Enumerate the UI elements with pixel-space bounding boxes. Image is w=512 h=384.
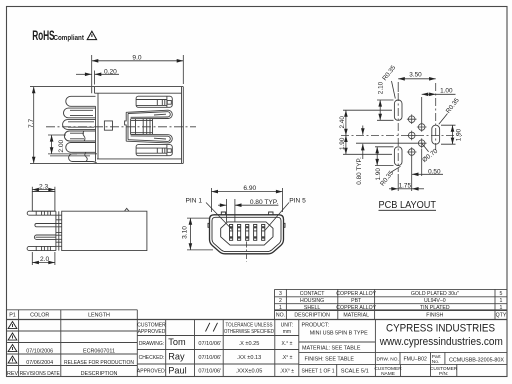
svg-text:Part: Part (432, 354, 441, 360)
svg-text:MATERIAL: MATERIAL (343, 313, 369, 319)
side view lower bar (34, 235, 56, 239)
pcb slot hole right (432, 125, 440, 144)
side view insulator box (32, 192, 55, 212)
company title block (right) (375, 352, 507, 376)
top view left contact fingers (63, 93, 98, 163)
drawing number row texts (377, 354, 505, 365)
svg-text:MINI USB 5PIN B TYPE: MINI USB 5PIN B TYPE (310, 331, 368, 337)
svg-text:CUSTOMER: CUSTOMER (137, 323, 166, 329)
svg-text:6.90: 6.90 (243, 185, 256, 192)
svg-text:CUSTOMER: CUSTOMER (374, 366, 402, 372)
svg-text:PIN 1: PIN 1 (186, 198, 203, 205)
side view top pin strip (27, 211, 56, 215)
svg-text:0.80 TYP.: 0.80 TYP. (356, 157, 363, 185)
side view body (62, 208, 147, 250)
svg-text:P1: P1 (9, 313, 16, 319)
svg-text:Ray: Ray (168, 352, 185, 362)
svg-text:APPROVED: APPROVED (138, 329, 166, 335)
svg-text:UNIT:: UNIT: (281, 323, 294, 329)
svg-text:QTY: QTY (496, 313, 507, 319)
svg-text:RELEASE FOR PRODUCTION: RELEASE FOR PRODUCTION (64, 360, 134, 366)
dimension 9.0 (92, 55, 184, 86)
revision triangle row1 (8, 322, 17, 364)
svg-text:CHECKED:: CHECKED: (139, 355, 165, 361)
dimension 1.00 (422, 94, 456, 122)
top view shell outline (30, 87, 183, 164)
dimension 2.0 (side view) (32, 252, 55, 265)
svg-text:TIN PLATED: TIN PLATED (420, 305, 450, 311)
dimension 2.40 (343, 110, 392, 135)
dimension 3.50 (398, 79, 436, 92)
svg-text:No.: No. (432, 359, 439, 365)
svg-text:DRW. NO.: DRW. NO. (377, 356, 399, 362)
svg-text:COLOR: COLOR (30, 313, 49, 319)
svg-text:www.cypressindustries.com: www.cypressindustries.com (379, 336, 503, 348)
svg-text:Tom: Tom (168, 337, 186, 347)
svg-text:2.3: 2.3 (39, 183, 48, 190)
leader R0.35 lower (391, 166, 401, 172)
svg-text:07/10/06': 07/10/06' (198, 369, 221, 375)
dimension 2.10 (377, 100, 394, 120)
svg-text:SHELL: SHELL (304, 305, 321, 311)
svg-text:3.10: 3.10 (182, 226, 189, 239)
svg-text:DESCRIPTION: DESCRIPTION (81, 371, 118, 377)
pin 5 leader (265, 203, 289, 231)
front view shell top tabs (208, 212, 285, 227)
dimension 0.20 (76, 71, 119, 85)
svg-text:REV: REV (7, 371, 18, 377)
svg-text:CYPRESS INDUSTRIES: CYPRESS INDUSTRIES (386, 323, 495, 335)
svg-text:07/06/2004: 07/06/2004 (26, 360, 53, 366)
revision triangle row4 (8, 356, 17, 363)
svg-text:DRAWING:: DRAWING: (139, 341, 164, 347)
blank date slashes (206, 323, 218, 332)
svg-text:X.° ±: X.° ± (281, 341, 292, 347)
top view center U-contact (125, 110, 173, 143)
front view inner shell line (212, 217, 281, 251)
pcb vertical centerline left (397, 93, 399, 172)
dimension 1.90 slot2 (375, 147, 394, 166)
svg-text:07/10/06': 07/10/06' (198, 341, 221, 347)
dimension 0.80 TYP (218, 199, 278, 222)
svg-text:2.10: 2.10 (378, 81, 385, 94)
svg-text:NO.: NO. (276, 313, 285, 319)
svg-text:ECR0607011: ECR0607011 (83, 348, 115, 354)
svg-text:.X ±0.25: .X ±0.25 (239, 341, 260, 347)
svg-text:0.80 TYP.: 0.80 TYP. (250, 199, 279, 206)
svg-text:P/N:: P/N: (439, 371, 448, 377)
svg-text:COPPER ALLOY: COPPER ALLOY (336, 291, 376, 297)
leader R0.35 upper (392, 81, 396, 99)
approval dates (198, 341, 221, 375)
svg-text:PBT: PBT (351, 298, 362, 304)
svg-text:PIN 5: PIN 5 (289, 198, 306, 205)
svg-text:SHEET 1 OF 1: SHEET 1 OF 1 (302, 369, 335, 375)
pcb vertical centerline right (435, 83, 437, 150)
svg-text:1: 1 (279, 305, 282, 311)
svg-text:UL94V–0: UL94V–0 (424, 298, 446, 304)
dimension 3.10 (187, 218, 213, 250)
svg-text:SCALE 5/1: SCALE 5/1 (341, 369, 369, 375)
tolerance values (236, 341, 263, 375)
revision table (left) (7, 310, 508, 377)
pcb slot hole upper-left (394, 100, 402, 120)
svg-text:RoHS: RoHS (32, 29, 55, 43)
RoHS compliant logo (32, 29, 96, 43)
svg-text:3: 3 (279, 291, 282, 297)
front view pins (230, 224, 265, 240)
dimension 2.3 (32, 187, 55, 192)
revision triangle row2 (8, 333, 17, 340)
svg-text:GOLD PLATED 30u": GOLD PLATED 30u" (411, 291, 459, 297)
customer row texts (374, 366, 457, 377)
svg-text:07/10/2006: 07/10/2006 (26, 348, 53, 354)
pcb pin holes column B (417, 122, 427, 148)
dimension 1.90 left (345, 135, 347, 154)
svg-text:FINISH: FINISH (426, 313, 443, 319)
top view centerline (46, 126, 196, 128)
dimension 0.80 TYP (pcb) (343, 126, 417, 160)
svg-text:1.75: 1.75 (399, 183, 412, 190)
svg-text:.X° ±: .X° ± (281, 355, 292, 361)
pcb pin holes column A (407, 114, 417, 156)
front view bottom centerline (246, 242, 248, 262)
svg-text:HOUSING: HOUSING (300, 298, 324, 304)
svg-text:.XXX±0.05: .XXX±0.05 (236, 369, 263, 375)
pin 1 leader (206, 203, 232, 230)
dimension 6.90 (211, 188, 282, 212)
side view mounting comb (56, 211, 62, 250)
svg-text:REVISIONS DATE: REVISIONS DATE (20, 371, 60, 377)
svg-text:1.90: 1.90 (339, 137, 346, 150)
svg-text:1: 1 (500, 305, 503, 311)
product block texts (302, 323, 369, 375)
top view center hold-down square (104, 121, 112, 130)
svg-text:2.00: 2.00 (58, 139, 65, 152)
front view cavity (221, 222, 273, 245)
svg-text:LENGTH: LENGTH (88, 313, 110, 319)
unit column texts (280, 323, 294, 375)
revision triangle row3 (8, 345, 17, 352)
leader R0.35 right (439, 114, 448, 125)
svg-text:DESCRIPTION: DESCRIPTION (294, 313, 330, 319)
svg-text:CCMUSBB-32005-80X: CCMUSBB-32005-80X (449, 358, 504, 364)
svg-text:9.0: 9.0 (132, 55, 141, 62)
svg-text:PRODUCT:: PRODUCT: (302, 323, 330, 329)
materials table texts (276, 291, 507, 319)
pcb slot hole lower-left (394, 147, 402, 166)
svg-text:2.40: 2.40 (339, 116, 346, 129)
svg-text:1.90: 1.90 (375, 168, 382, 181)
svg-text:7.7: 7.7 (28, 118, 35, 127)
product/finish block (299, 320, 376, 377)
top view upper right slot (136, 96, 172, 107)
svg-text:2: 2 (279, 298, 282, 304)
svg-text:FINISH: SEE TABLE: FINISH: SEE TABLE (305, 356, 355, 362)
svg-text:CUSTOMER: CUSTOMER (430, 366, 458, 372)
side view bottom pin strip (27, 246, 56, 250)
svg-text:PCB LAYOUT: PCB LAYOUT (379, 199, 437, 211)
approvals block (middle) (137, 320, 298, 377)
svg-text:5: 5 (500, 291, 503, 297)
dimension 1.75 (389, 157, 424, 192)
revision table texts (7, 313, 134, 377)
svg-text:1.90: 1.90 (456, 128, 463, 141)
svg-text:.XX° ±: .XX° ± (280, 369, 294, 375)
svg-text:07/10/06': 07/10/06' (198, 355, 221, 361)
svg-text:APPROVED:: APPROVED: (137, 369, 166, 375)
dimension 1.90 right (441, 125, 456, 144)
svg-text:mm: mm (283, 329, 291, 335)
dimension 0.50 (412, 149, 443, 177)
svg-text:FMU–B02: FMU–B02 (404, 356, 427, 362)
svg-text:Compliant: Compliant (54, 35, 85, 43)
side view middle pin (35, 224, 56, 227)
svg-text:TOLERANCE UNLESS: TOLERANCE UNLESS (226, 323, 274, 329)
svg-text:0.20: 0.20 (104, 68, 117, 75)
svg-text:0.50: 0.50 (428, 168, 441, 175)
svg-text:2.0: 2.0 (40, 256, 49, 263)
front view outer shell (210, 215, 284, 254)
top view lower right slot (136, 145, 172, 156)
svg-text:Paul: Paul (168, 365, 186, 375)
materials table (upper title block) (275, 289, 508, 319)
svg-text:3.50: 3.50 (409, 72, 422, 79)
svg-text:CONTACT: CONTACT (300, 291, 326, 297)
approvals block texts (137, 323, 274, 375)
dimension 7.7 (33, 87, 35, 164)
pcb horizontal centerline (341, 134, 462, 136)
dimension 2.00 (top view) (48, 135, 90, 156)
svg-text:1: 1 (500, 298, 503, 304)
svg-text:COPPER ALLOY: COPPER ALLOY (336, 305, 376, 311)
svg-text:MATERIAL: SEE TABLE: MATERIAL: SEE TABLE (302, 346, 361, 352)
svg-text:.XX ±0.13: .XX ±0.13 (237, 355, 262, 361)
svg-text:OTHERWISE SPECIFIED: OTHERWISE SPECIFIED (224, 329, 274, 335)
leader dia 0.70 (422, 143, 429, 152)
svg-text:NAME: NAME (381, 371, 395, 377)
svg-text:1.00: 1.00 (440, 87, 453, 94)
